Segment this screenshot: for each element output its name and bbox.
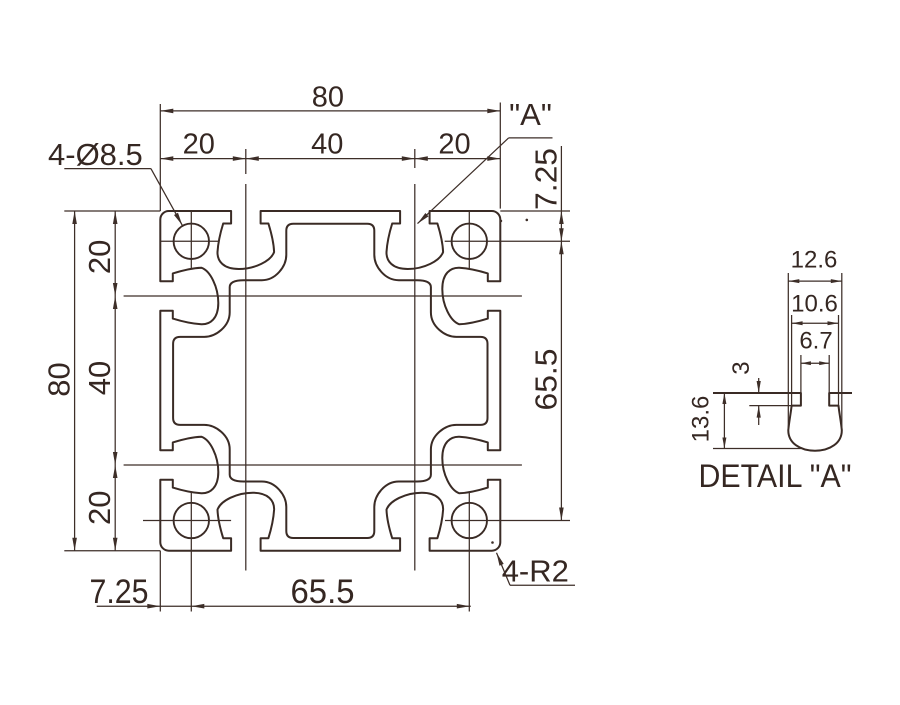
crosshair hole bottom-left	[190, 492, 192, 612]
detail A slot	[713, 393, 852, 451]
dimension 80 left	[74, 211, 76, 551]
svg-text:20: 20	[82, 240, 117, 274]
corner hole 8.5	[174, 224, 209, 259]
extension line bottom left edge	[159, 551, 161, 612]
detail dimension 12.6	[787, 273, 789, 429]
corner hole 8.5	[174, 503, 209, 538]
detail dimension 13.6 slot depth	[713, 448, 801, 450]
detail dimension 3 lip depth	[749, 405, 791, 407]
centerline slot column left	[245, 149, 247, 174]
dimension 20/40/20 top	[160, 158, 500, 160]
svg-text:6.7: 6.7	[799, 328, 832, 355]
svg-text:20: 20	[183, 129, 215, 161]
corner point markers	[491, 541, 494, 544]
extension lines top	[159, 104, 161, 211]
centerline slot column right	[414, 149, 416, 168]
svg-text:7.25: 7.25	[529, 148, 564, 210]
dimension 80 top	[160, 110, 500, 112]
central cavity	[173, 224, 487, 538]
centerline slot row lower	[124, 464, 522, 466]
extension lines left	[64, 210, 160, 212]
svg-text:3: 3	[728, 361, 755, 374]
svg-text:80: 80	[42, 362, 77, 396]
corner hole 8.5	[452, 503, 487, 538]
detail dimension 10.6	[791, 315, 793, 406]
svg-text:12.6: 12.6	[791, 247, 838, 274]
svg-text:4-R2: 4-R2	[502, 554, 569, 589]
dimension 20/40/20 left	[114, 211, 116, 551]
profile outline	[160, 211, 500, 551]
svg-text:20: 20	[438, 129, 470, 161]
crosshair hole top-left	[190, 211, 192, 270]
dimension 7.25 bottom	[97, 605, 192, 607]
extension line top edge right	[500, 210, 570, 212]
dimension 7.25 right	[560, 146, 562, 241]
svg-text:7.25: 7.25	[90, 573, 149, 611]
svg-text:65.5: 65.5	[291, 573, 355, 611]
svg-text:4-Ø8.5: 4-Ø8.5	[48, 137, 143, 172]
svg-text:"A": "A"	[509, 97, 552, 132]
dimension 65.5 right	[560, 241, 562, 520]
svg-text:10.6: 10.6	[791, 291, 838, 318]
crosshair hole bottom-right	[468, 492, 470, 612]
svg-text:80: 80	[312, 81, 344, 113]
corner hole 8.5	[452, 224, 487, 259]
crosshair hole top-right	[468, 211, 470, 270]
svg-text:40: 40	[311, 129, 343, 161]
detail dimension 6.7	[800, 355, 802, 393]
svg-text:20: 20	[82, 490, 117, 524]
svg-text:DETAIL "A": DETAIL "A"	[699, 458, 852, 494]
svg-text:13.6: 13.6	[688, 396, 715, 443]
centerline slot row upper	[124, 295, 522, 297]
svg-text:40: 40	[82, 361, 117, 395]
svg-text:65.5: 65.5	[529, 349, 564, 411]
dimension 65.5 bottom	[191, 605, 471, 607]
